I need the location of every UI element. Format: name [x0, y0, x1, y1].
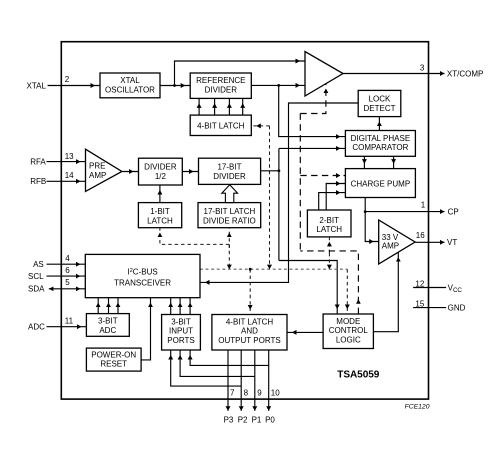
svg-text:LOGIC: LOGIC: [336, 335, 361, 344]
svg-text:REFERENCE: REFERENCE: [196, 76, 245, 85]
svg-text:DETECT: DETECT: [364, 104, 396, 113]
svg-text:I2C-BUS: I2C-BUS: [128, 267, 158, 276]
wire power-on reset to transceiver: [141, 298, 150, 360]
arrowhead left on SDA: [49, 287, 54, 292]
svg-text:RFB: RFB: [30, 177, 46, 186]
wire I2C data to 1-bit latch: [160, 228, 229, 245]
svg-text:16: 16: [416, 231, 425, 240]
wire input ports to transceiver bit 3: [189, 298, 191, 315]
svg-text:AMP: AMP: [89, 171, 106, 180]
block 2-BIT LATCH: [307, 210, 351, 237]
junction at output ports data drop: [249, 268, 252, 271]
svg-text:DIVIDE RATIO: DIVIDE RATIO: [203, 216, 256, 225]
svg-text:DIVIDER: DIVIDER: [144, 163, 177, 172]
svg-text:DIVIDER: DIVIDER: [205, 86, 238, 95]
outer frame of IC TSA5059: [61, 42, 428, 399]
svg-text:DIGITAL PHASE: DIGITAL PHASE: [351, 134, 411, 143]
block DIGITAL PHASE COMPARATOR: [345, 131, 415, 157]
svg-text:XTAL: XTAL: [120, 76, 140, 85]
wire I2C data to output ports: [249, 269, 251, 314]
wire charge pump to CP pin 1: [365, 211, 444, 213]
svg-text:P2: P2: [238, 416, 248, 425]
wire 1-bit latch to divider 1/2: [159, 185, 161, 203]
wire P2 readback to input ports: [171, 350, 242, 386]
svg-text:P3: P3: [224, 416, 234, 425]
svg-text:AS: AS: [33, 260, 44, 269]
wire disable to buffer amp: [300, 84, 326, 114]
svg-text:SDA: SDA: [28, 285, 45, 294]
block 3-BIT ADC: [86, 314, 129, 337]
wire I2C data bus: [200, 268, 347, 270]
svg-text:1/2: 1/2: [155, 172, 167, 181]
svg-text:P0: P0: [265, 416, 275, 425]
wire 3-bit ADC to transceiver bit 3: [117, 298, 119, 314]
junction at oscillator output branch: [173, 84, 176, 87]
svg-text:13: 13: [65, 152, 74, 161]
block CHARGE PUMP: [345, 169, 415, 198]
wire XTAL input to oscillator: [48, 85, 100, 87]
svg-text:AMP: AMP: [382, 242, 399, 251]
svg-text:1: 1: [421, 201, 426, 210]
bus hollow arrow 17-bit latch to 17-bit divider: [222, 185, 238, 203]
svg-text:11: 11: [65, 316, 74, 325]
wire 4-bit latch to reference divider bit 2: [214, 98, 216, 115]
svg-text:14: 14: [65, 171, 74, 180]
wire P3 output to pin 7: [227, 350, 229, 411]
svg-text:CONTROL: CONTROL: [329, 326, 369, 335]
wire mode control disable to charge pump: [300, 175, 345, 177]
block I2C-BUS TRANSCEIVER: [85, 254, 200, 297]
block LOCK DETECT: [358, 90, 401, 116]
junction at CP pin branch: [364, 210, 367, 213]
svg-text:LOCK: LOCK: [369, 95, 391, 104]
wire preamp output to divider 1/2: [122, 171, 139, 173]
wire phase comparator to charge pump down: [393, 156, 395, 168]
svg-text:DIVIDER: DIVIDER: [213, 172, 246, 181]
svg-text:8: 8: [244, 389, 249, 398]
wire P2 output to pin 8: [240, 350, 242, 411]
svg-text:10: 10: [271, 389, 280, 398]
wire VCC pin 12 stub: [413, 287, 446, 289]
wire fref to digital phase comparator: [279, 85, 346, 136]
svg-text:ADC: ADC: [99, 326, 116, 335]
block REFERENCE DIVIDER: [190, 73, 251, 98]
junction at fdiv branch: [278, 169, 281, 172]
wire mode control to output ports: [287, 331, 323, 333]
wire input ports to transceiver bit 2: [179, 298, 181, 315]
wire 2-bit latch drop to I2C bus: [328, 253, 330, 269]
wire 4-bit latch to reference divider bit 4: [242, 98, 244, 115]
svg-text:LATCH: LATCH: [147, 216, 173, 225]
svg-text:17-BIT LATCH: 17-BIT LATCH: [204, 207, 256, 216]
svg-text:MODE: MODE: [336, 317, 360, 326]
svg-text:4-BIT LATCH: 4-BIT LATCH: [197, 121, 244, 130]
svg-text:CP: CP: [448, 208, 459, 217]
wire I2C data to 17-bit latch: [228, 228, 230, 248]
block POWER-ON RESET: [86, 348, 141, 371]
block 4-BIT LATCH: [190, 115, 251, 135]
wire RFB input to preamp: [47, 180, 86, 182]
svg-text:INPUT: INPUT: [169, 327, 193, 336]
junction at reference divider output branch: [277, 84, 280, 87]
wire I2C data to 4-bit latch: [251, 125, 269, 127]
wire fdiv to mode control logic: [279, 261, 337, 315]
wire oscillator branch up to buffer amp input: [175, 61, 306, 86]
svg-text:15: 15: [415, 299, 424, 308]
svg-text:P1: P1: [252, 416, 262, 425]
wire P1 output to pin 9: [254, 350, 256, 411]
wire oscillator output to reference divider: [160, 85, 190, 87]
wire P0 output to pin 10: [268, 350, 270, 411]
svg-text:2-BIT: 2-BIT: [319, 216, 339, 225]
wire divider 1/2 output to 17-bit divider: [182, 171, 198, 173]
wire 17-bit divider output fdiv: [261, 170, 279, 172]
svg-text:RFA: RFA: [30, 158, 46, 167]
wire GND pin 15 stub: [413, 307, 446, 309]
op-amp 33 V AMP: [379, 220, 415, 264]
wire fdiv to digital phase comparator: [279, 147, 346, 149]
block MODE CONTROL LOGIC: [323, 314, 373, 349]
svg-text:RESET: RESET: [100, 360, 127, 369]
svg-text:COMPARATOR: COMPARATOR: [352, 143, 408, 152]
svg-text:2: 2: [65, 75, 70, 84]
wire 3-bit ADC to transceiver bit 2: [108, 298, 110, 314]
svg-text:TRANSCEIVER: TRANSCEIVER: [114, 278, 171, 287]
svg-text:OUTPUT PORTS: OUTPUT PORTS: [218, 336, 280, 345]
wire 33V amp output to VT pin 16: [415, 241, 444, 243]
svg-text:POWER-ON: POWER-ON: [91, 350, 136, 359]
svg-text:17-BIT: 17-BIT: [217, 163, 241, 172]
svg-text:LATCH: LATCH: [316, 225, 342, 234]
block 3-BIT INPUT PORTS: [162, 315, 201, 351]
svg-text:4: 4: [65, 254, 70, 263]
wire P1 readback to input ports: [180, 350, 255, 376]
svg-text:TSA5059: TSA5059: [337, 369, 379, 380]
block 17-BIT DIVIDER: [199, 158, 261, 184]
op-amp buffer XT/COMP: [305, 52, 343, 97]
wire 2-bit latch to charge pump bit 1: [326, 184, 345, 211]
block 1-BIT LATCH: [138, 203, 181, 228]
svg-text:9: 9: [257, 389, 262, 398]
svg-text:3-BIT: 3-BIT: [98, 316, 118, 325]
wire ADC input to 3-bit ADC: [47, 326, 87, 328]
wire lock detect to I2C transceiver: [200, 103, 358, 282]
wire I2C data drop for 4-bit latch: [269, 126, 271, 269]
wire mode control disable rail: [299, 114, 301, 251]
block XTAL OSCILLATOR: [100, 73, 160, 98]
wire phase comparator to charge pump up: [363, 156, 365, 168]
svg-text:3-BIT: 3-BIT: [171, 317, 191, 326]
wire 4-bit latch to reference divider bit 3: [228, 98, 230, 115]
svg-text:CHARGE PUMP: CHARGE PUMP: [351, 179, 411, 188]
wire reference divider output to buffer amp input: [251, 84, 305, 86]
wire mode control to 33V amp: [373, 252, 398, 332]
svg-text:GND: GND: [448, 304, 466, 313]
wire 4-bit latch to reference divider bit 1: [198, 98, 200, 115]
svg-text:1-BIT: 1-BIT: [150, 207, 170, 216]
svg-text:3: 3: [420, 64, 425, 73]
wire buffer output to XT/COMP pin 3: [343, 73, 445, 75]
wire phase comparator to lock detect: [378, 117, 380, 131]
block 17-BIT LATCH DIVIDE RATIO: [198, 203, 261, 228]
svg-text:SCL: SCL: [28, 272, 44, 281]
svg-text:XT/COMP: XT/COMP: [447, 69, 483, 78]
svg-text:7: 7: [230, 389, 235, 398]
svg-text:OSCILLATOR: OSCILLATOR: [105, 86, 155, 95]
svg-text:PORTS: PORTS: [167, 336, 194, 345]
wire RFA input to preamp: [47, 161, 86, 163]
wire AS input to transceiver: [47, 263, 86, 265]
wire SCL input to transceiver: [47, 275, 86, 277]
wire mode control to disable rail: [300, 251, 358, 314]
wire 3-bit ADC to transceiver bit 1: [97, 298, 99, 314]
svg-text:XTAL: XTAL: [27, 81, 47, 90]
wire SDA bidirectional to transceiver: [49, 288, 86, 290]
svg-text:6: 6: [65, 266, 70, 275]
svg-text:AND: AND: [241, 327, 258, 336]
wire 2-bit latch to charge pump bit 2: [319, 193, 346, 210]
op-amp PRE AMP: [86, 149, 122, 191]
arrowhead up on mode control output: [356, 299, 361, 304]
wire P0 readback to input ports: [190, 350, 269, 365]
svg-text:4-BIT LATCH: 4-BIT LATCH: [226, 317, 273, 326]
block DIVIDER 1/2: [139, 158, 183, 185]
wire I2C data to 2-bit latch: [328, 237, 330, 253]
block 4-BIT LATCH AND OUTPUT PORTS: [212, 315, 287, 351]
svg-text:5: 5: [65, 278, 70, 287]
wire charge pump output: [365, 198, 379, 242]
wire fdiv vertical rail: [278, 148, 280, 260]
svg-text:ADC: ADC: [28, 323, 45, 332]
wire I2C bus to mode control logic: [346, 269, 348, 314]
svg-text:PRE: PRE: [89, 162, 105, 171]
wire 17-bit latch drop to I2C bus: [228, 244, 230, 269]
wire input ports to transceiver bit 1: [170, 298, 172, 315]
svg-text:FCE120: FCE120: [405, 404, 430, 411]
svg-text:VT: VT: [447, 238, 457, 247]
